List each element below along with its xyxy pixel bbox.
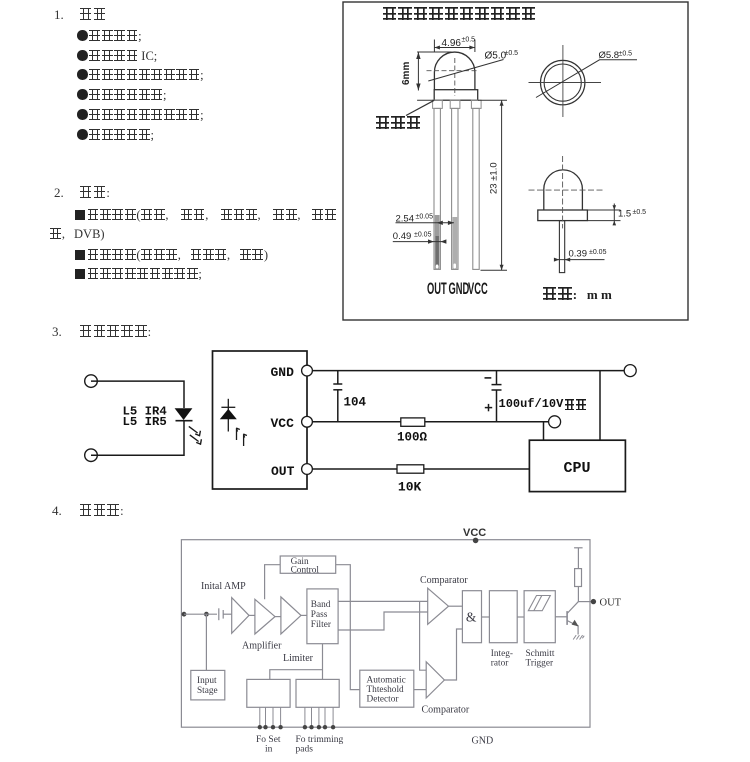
svg-text:4.96: 4.96 — [442, 38, 462, 49]
Fo Set box — [247, 679, 290, 707]
LED emission arrows — [189, 426, 202, 444]
svg-text:±0.05: ±0.05 — [416, 214, 434, 221]
top view outer circle — [541, 60, 585, 104]
terminal J1 (top left) — [85, 375, 98, 388]
svg-text:Ø5.0: Ø5.0 — [485, 51, 507, 62]
pin name labels OUT GND VCC — [427, 279, 488, 298]
terminal J2 (bottom left) — [85, 449, 98, 462]
svg-text:OUT: OUT — [600, 598, 622, 609]
svg-text:Schmitt: Schmitt — [526, 649, 555, 659]
dimension 1.5±0.5 — [588, 204, 621, 226]
VCC pin dot — [473, 538, 479, 544]
input node dot on edge — [182, 612, 187, 617]
heading 1 特性 — [54, 6, 106, 24]
svg-text:VCC: VCC — [463, 527, 486, 539]
svg-text:10K: 10K — [398, 480, 422, 495]
IC outer boundary — [181, 540, 590, 728]
front view: flange (notched left side) — [434, 90, 478, 101]
wire gain control to amp2 — [265, 565, 281, 600]
svg-text:Fo Set: Fo Set — [256, 735, 281, 745]
svg-text:&: & — [466, 610, 477, 625]
front view: lead 2 (GND) — [450, 100, 460, 108]
svg-text:Filter: Filter — [311, 620, 332, 630]
GND rail wire — [312, 370, 624, 372]
svg-text:Detector: Detector — [367, 695, 400, 705]
wire GND rail down to CPU — [599, 371, 601, 441]
svg-text:Automatic: Automatic — [367, 676, 406, 686]
dimension 4.96±0.5 — [434, 40, 475, 53]
input wire — [184, 613, 217, 615]
hysteresis symbol — [528, 596, 550, 611]
label 单位: m m — [542, 286, 612, 304]
svg-text:100uf/10V: 100uf/10V — [499, 397, 565, 411]
transistor Q1 base bar — [566, 611, 568, 625]
schmitt to transistor wire — [555, 616, 567, 618]
capacitor C1 104 — [337, 371, 339, 384]
svg-text:Inital AMP: Inital AMP — [201, 581, 246, 592]
svg-text:Thteshold: Thteshold — [367, 685, 405, 695]
wire resistor to collector — [577, 587, 579, 602]
bullet 小型设计; — [77, 27, 142, 45]
branch wire to bottom comparator — [420, 601, 427, 670]
svg-text:±0.5: ±0.5 — [505, 50, 519, 57]
C2 minus sign — [485, 377, 492, 379]
wire gain control to ATD — [336, 565, 360, 690]
bullet 宽角度及长距离接收; — [77, 66, 204, 84]
svg-text:OUT: OUT — [427, 279, 447, 298]
bullet 内置专用 IC; — [77, 47, 157, 65]
heading 4 原理图: — [52, 502, 124, 520]
IR LED D1 (emitter) — [175, 408, 193, 420]
bottom comparator output wire — [444, 629, 462, 680]
amp triangle A1 — [232, 598, 249, 634]
photodiode incoming arrows — [236, 428, 247, 446]
wire node to input stage — [205, 614, 207, 670]
front view: lead 1 (OUT) — [433, 100, 482, 269]
Fo trimming box — [296, 679, 339, 707]
amp triangle A2 — [255, 599, 275, 634]
terminal J3 (GND right) — [624, 365, 636, 377]
label 以上 (after 100uf/10V) — [564, 396, 586, 414]
Q1 emitter with arrow — [567, 621, 578, 635]
CPU box — [529, 440, 625, 491]
label Fo trimming pads — [296, 735, 344, 755]
svg-text:104: 104 — [344, 396, 367, 410]
svg-text:±0.5: ±0.5 — [633, 209, 647, 216]
dimension 6mm — [416, 52, 451, 100]
svg-text:GND: GND — [449, 279, 470, 298]
Schmitt Trigger box — [524, 591, 555, 643]
receiver module U1 box — [213, 351, 308, 489]
svg-text:23 ±1.0: 23 ±1.0 — [489, 162, 500, 194]
svg-text:Amplifier: Amplifier — [242, 641, 282, 652]
BPF bottom output wire — [338, 612, 428, 630]
leader Ø5.0±0.5 — [428, 60, 503, 82]
svg-text:OUT: OUT — [271, 464, 295, 479]
front view: epoxy dome — [434, 52, 475, 90]
bullet 低电压工作; — [77, 126, 154, 144]
svg-text:Input: Input — [197, 676, 217, 686]
Fo Set pins — [260, 707, 281, 727]
Band Pass Filter box — [307, 589, 338, 644]
wire VCC to CPU — [543, 422, 545, 440]
item 其他无线遥控器产品; — [75, 265, 202, 283]
resistor R2 10K — [397, 465, 424, 473]
wire J1 to LED anode — [91, 381, 184, 408]
BPF top output wire — [338, 600, 428, 602]
item 视听器材(音响,电视,录影机,碟机、机顶 — [75, 206, 336, 224]
package drawing frame — [343, 2, 688, 320]
item 家庭电器(冷气机,电风扇,电灯) — [75, 246, 268, 264]
Q1 collector — [567, 602, 578, 614]
BPF wire down to trimming — [322, 644, 324, 680]
svg-text:100Ω: 100Ω — [397, 431, 428, 445]
leader Ø5.8±0.5 — [536, 60, 637, 98]
Fo trimming pin dots — [303, 725, 336, 729]
side view lead — [559, 221, 564, 273]
svg-text:±0.05: ±0.05 — [414, 232, 432, 239]
AND gate box — [462, 591, 481, 643]
svg-text:Control: Control — [291, 566, 320, 576]
input node dot 2 — [204, 612, 209, 617]
amp triangle A3 — [281, 597, 301, 634]
svg-text:Trigger: Trigger — [526, 659, 554, 669]
side view dome — [544, 170, 583, 210]
Input Stage text — [197, 676, 218, 696]
Input Stage box — [191, 670, 225, 700]
pin labels GND VCC OUT — [271, 365, 295, 479]
electrolytic capacitor C2 — [496, 371, 498, 385]
svg-text:6mm: 6mm — [401, 62, 412, 85]
svg-text:0.49: 0.49 — [393, 231, 412, 242]
C2 plus sign — [485, 407, 492, 409]
svg-text:pads: pads — [296, 745, 314, 755]
svg-text:±0.05: ±0.05 — [589, 249, 607, 256]
Gain Control text — [291, 557, 320, 576]
svg-text:Ø5.8: Ø5.8 — [599, 50, 620, 61]
svg-text:Comparator: Comparator — [422, 705, 470, 716]
dome center lines (dashed) — [427, 58, 479, 96]
svg-text:VCC: VCC — [468, 279, 488, 298]
wire R2 to CPU — [424, 468, 530, 470]
Fo trimming pins — [305, 707, 333, 727]
svg-text:Band: Band — [311, 600, 331, 610]
pin circle GND — [302, 365, 313, 376]
branch to Fo set box — [270, 670, 323, 680]
svg-text:rator: rator — [491, 659, 509, 669]
label Fo Set in — [256, 735, 281, 755]
coupling capacitor — [218, 608, 220, 620]
VCC tap bar — [574, 547, 583, 549]
wire cap to amp1 — [223, 613, 232, 615]
side view flange — [538, 210, 588, 221]
svg-text:in: in — [265, 745, 273, 755]
front view: lead 3 (VCC) — [471, 100, 481, 108]
Gain Control box — [280, 556, 336, 573]
top comparator triangle — [428, 588, 449, 624]
svg-text:0.39: 0.39 — [569, 249, 588, 260]
terminal J4 (VCC right) — [549, 416, 561, 428]
resistor R1 100ohm — [401, 418, 425, 426]
OUT pin dot — [591, 599, 596, 604]
side view center lines — [529, 156, 603, 228]
top comparator output wire — [449, 605, 463, 607]
leader line for 缺口边 — [406, 100, 434, 115]
svg-text:Comparator: Comparator — [420, 575, 468, 586]
top view inner circle — [544, 64, 581, 101]
ATD text — [367, 676, 406, 705]
wire R1 to terminal — [425, 421, 549, 423]
integrator to schmitt wire — [517, 616, 524, 618]
pin circle OUT — [302, 464, 313, 475]
item wrap 盒、DVB) — [50, 225, 105, 243]
package drawing title 外型尺寸及引脚排列图 — [382, 6, 536, 24]
heading 3 应用电路图: — [52, 323, 151, 341]
OUT wire to resistor R2 — [312, 468, 397, 470]
dimension 23±1.0 — [478, 100, 507, 270]
Integrator label — [491, 649, 513, 669]
OUT wire — [578, 601, 591, 603]
AND to integrator wire — [482, 616, 490, 618]
svg-text:GND: GND — [472, 736, 494, 747]
Band Pass Filter text — [311, 600, 332, 630]
emitter ground hatch — [573, 635, 584, 639]
svg-text:Fo trimming: Fo trimming — [296, 735, 344, 745]
svg-text:Integ-: Integ- — [491, 649, 513, 659]
wire LED cathode to J2 — [91, 421, 184, 456]
pin circle VCC — [302, 416, 313, 427]
Integrator box — [489, 591, 517, 643]
svg-text:Limiter: Limiter — [283, 653, 314, 664]
heading 2 应用: — [54, 184, 110, 202]
svg-text:±0.5: ±0.5 — [462, 37, 476, 44]
svg-text:CPU: CPU — [564, 460, 591, 477]
svg-text:Pass: Pass — [311, 610, 328, 620]
svg-text:Stage: Stage — [197, 686, 218, 696]
svg-text:1.5: 1.5 — [618, 209, 631, 220]
label L5 IR4 / L5 IR5 — [123, 404, 168, 429]
bullet 能抵于环境光线影响; — [77, 106, 204, 124]
svg-text:VCC: VCC — [271, 416, 295, 431]
svg-text:±0.5: ±0.5 — [619, 51, 633, 58]
Fo Set pin dots — [258, 725, 283, 729]
photodiode inside U1 — [227, 399, 229, 432]
ATD output wire — [414, 689, 426, 691]
wires between amps — [249, 614, 255, 616]
Automatic Threshold Detector box — [360, 670, 414, 707]
svg-text:GND: GND — [271, 365, 295, 380]
bullet 抗干扰能力强; — [77, 86, 166, 104]
pull-up resistor — [575, 569, 582, 587]
label 缺口边 — [375, 115, 421, 133]
Schmitt label — [526, 649, 555, 669]
VCC wire to resistor R1 — [312, 421, 400, 423]
top view center cross — [529, 45, 602, 117]
bottom comparator triangle — [426, 662, 444, 698]
wire VCC tap to resistor — [577, 548, 579, 569]
svg-text:L5 IR5: L5 IR5 — [123, 415, 167, 429]
